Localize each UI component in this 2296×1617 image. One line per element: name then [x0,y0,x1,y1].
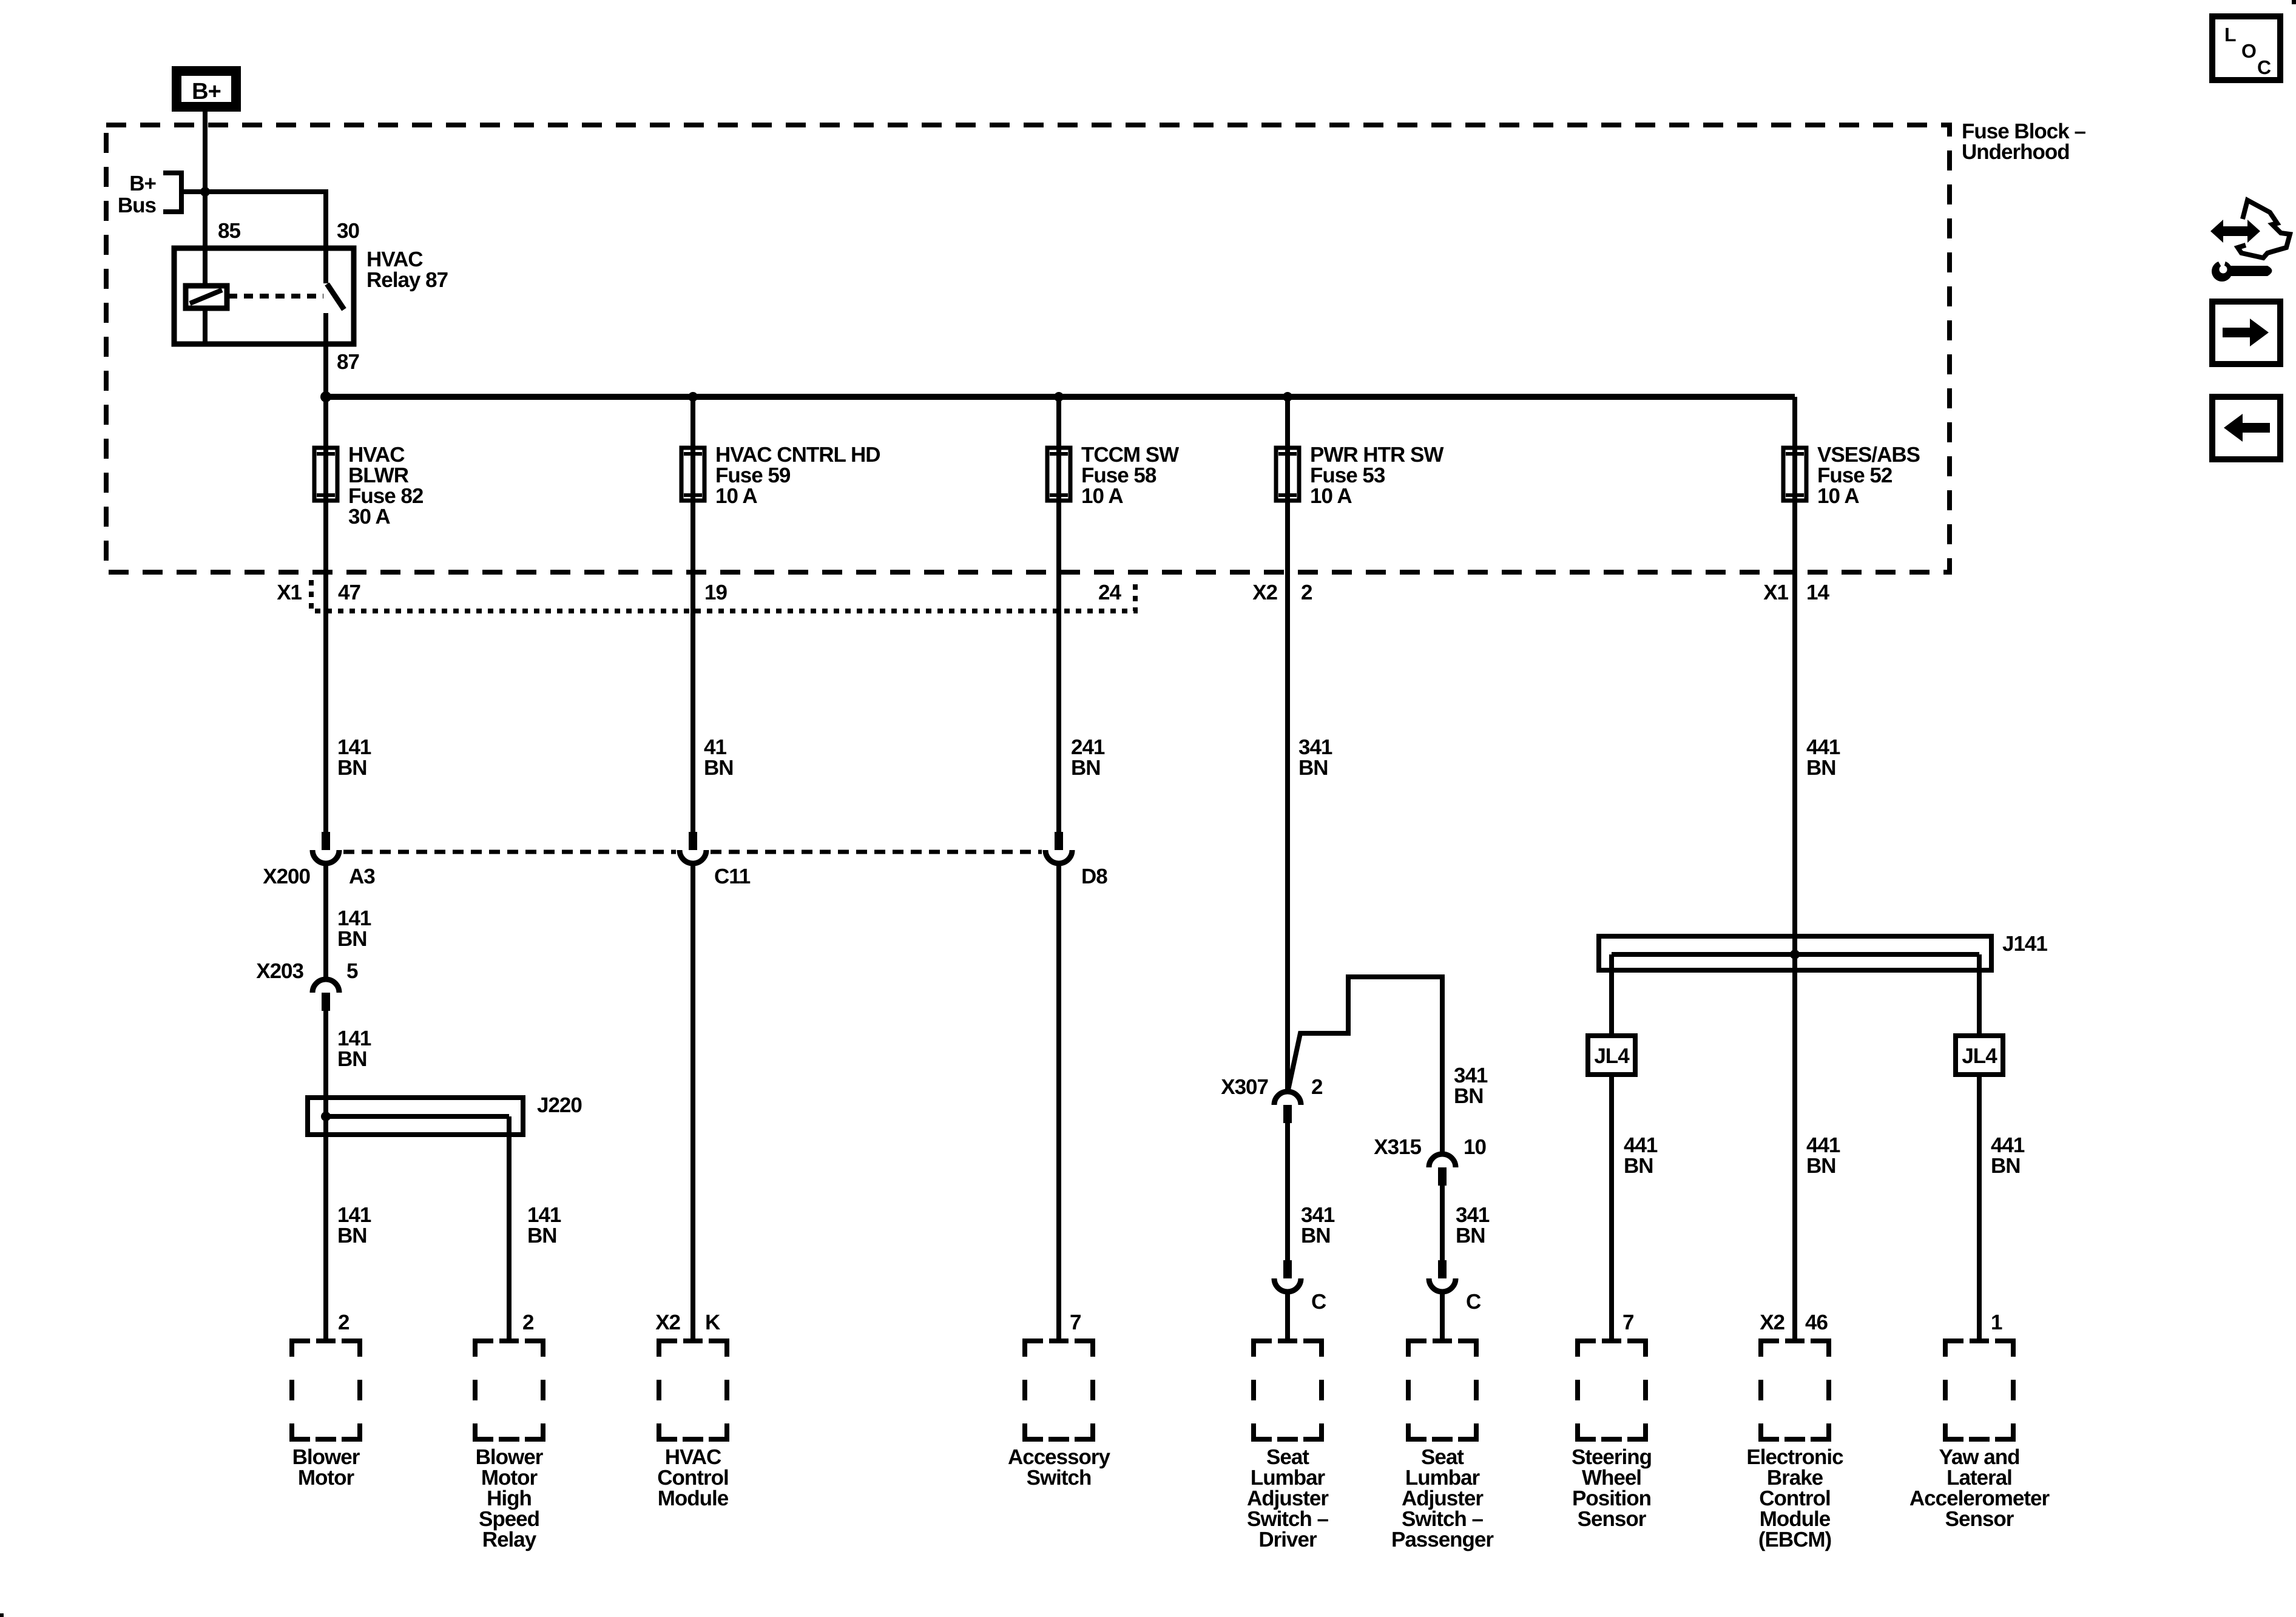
connector X200 dashed link [343,850,676,854]
svg-text:C: C [1311,1290,1326,1314]
wire J141 to JL4 right [1977,973,1982,1036]
supply bus line [323,394,1795,400]
svg-text:(EBCM): (EBCM) [1758,1528,1831,1551]
svg-text:Passenger: Passenger [1391,1528,1494,1551]
junction dot bus fuse 59 [688,392,698,402]
svg-text:10 A: 10 A [1817,484,1859,508]
component box seat lumbar adjuster switch driver [1254,1341,1272,1357]
connector X200 cavity A3 [322,832,330,850]
wire JL4 right to yaw sensor [1977,1077,1982,1340]
splice J220 internal bus [321,1112,331,1121]
svg-text:J220: J220 [537,1093,582,1117]
relay switch blade [327,284,344,309]
svg-text:X1: X1 [277,581,302,604]
splice pack J141 box [1599,936,1991,970]
svg-text:10 A: 10 A [715,484,757,508]
relay coil [186,286,227,308]
svg-text:X2: X2 [1760,1311,1784,1334]
forward arrow box [2212,302,2280,364]
svg-text:BN: BN [337,927,367,951]
svg-text:BN: BN [704,756,734,780]
wire X315 to connector C passenger [1440,1186,1445,1262]
diagnostic icon connector outline [2238,200,2290,258]
fuse F82 HVAC BLWR 30A [314,448,337,501]
page corner mark top-right [2292,0,2296,4]
svg-text:2: 2 [1301,581,1312,604]
svg-text:C11: C11 [714,865,751,888]
node B+ Bus bracket [163,173,181,212]
svg-text:BN: BN [1298,756,1328,780]
svg-text:30 A: 30 A [348,505,390,528]
svg-text:X203: X203 [256,959,303,983]
component box electronic brake control module EBCM [1761,1341,1779,1357]
svg-text:D8: D8 [1081,865,1107,888]
svg-text:Bus: Bus [118,194,157,217]
fuse F59 HVAC CNTRL HD 10A [681,448,704,501]
component box seat lumbar adjuster switch passenger [1408,1341,1427,1357]
svg-text:X315: X315 [1374,1135,1421,1159]
svg-text:7: 7 [1070,1311,1081,1334]
svg-text:85: 85 [218,219,240,243]
svg-text:B+: B+ [129,172,156,195]
splice pack J220 box [308,1098,523,1135]
component box blower motor [292,1341,310,1357]
fuse F58 TCCM SW 10A [1047,448,1070,501]
connector X203 cavity 5 [322,993,330,1011]
svg-text:87: 87 [337,350,359,374]
connector X307 cavity 2 [1283,1105,1292,1123]
wire fuse 82 to connector X200 [323,397,328,833]
svg-text:BN: BN [337,1224,367,1247]
svg-text:2: 2 [1311,1075,1323,1099]
svg-text:10 A: 10 A [1081,484,1123,508]
component box HVAC control module [659,1341,677,1357]
page corner mark bottom-left [0,1613,4,1617]
wire through J220 [323,1098,328,1340]
svg-text:B+: B+ [192,79,221,104]
svg-text:7: 7 [1622,1311,1633,1334]
wire JL4 left to steering sensor [1609,1077,1614,1340]
wire J141 to JL4 left [1609,973,1614,1036]
svg-text:BN: BN [1624,1154,1653,1178]
svg-text:10: 10 [1464,1135,1486,1159]
wire relay pin 85 to coil [203,192,208,287]
svg-text:19: 19 [704,581,727,604]
svg-text:2: 2 [522,1311,534,1334]
wire junction to relay pin 30 [203,189,326,194]
svg-text:Driver: Driver [1258,1528,1317,1551]
junction dot B+ bus [200,187,210,197]
wire through J141 [1792,936,1797,1340]
component box yaw and lateral accelerometer sensor [1945,1341,1963,1357]
junction dot pin 87 bus [320,391,331,402]
svg-text:Module: Module [658,1487,729,1510]
connector C passenger [1438,1260,1447,1278]
fuse F53 PWR HTR SW 10A [1276,448,1299,501]
svg-text:BN: BN [1301,1224,1331,1247]
svg-text:J141: J141 [2002,932,2047,956]
svg-text:Underhood: Underhood [1962,140,2070,164]
component box blower motor high speed relay [475,1341,493,1357]
svg-text:X307: X307 [1221,1075,1268,1099]
diagnostic icon double arrow [2210,220,2260,243]
connector X315 cavity 10 [1438,1167,1447,1186]
fuse F52 VSES/ABS 10A [1783,448,1806,501]
svg-text:X2: X2 [655,1311,680,1334]
wire fuse 53 to connector X307 [1285,397,1290,1092]
svg-text:46: 46 [1805,1311,1828,1334]
svg-text:1: 1 [1991,1311,2002,1334]
diagnostic icon wrench [2227,266,2272,276]
splice J141 internal bus [1612,952,1979,957]
svg-text:C: C [1466,1290,1481,1314]
svg-text:BN: BN [1454,1084,1484,1108]
LOC reference box [2212,16,2280,80]
svg-text:5: 5 [346,959,358,983]
wire C passenger to box [1440,1291,1445,1340]
svg-text:JL4: JL4 [1594,1044,1630,1068]
component box accessory switch [1025,1341,1043,1357]
svg-text:Relay: Relay [482,1528,537,1551]
svg-text:JL4: JL4 [1962,1044,1997,1068]
wire fuse 58 to connector X200 [1056,397,1061,833]
svg-text:14: 14 [1806,581,1829,604]
svg-text:A3: A3 [349,865,375,888]
svg-text:C: C [2257,56,2271,78]
connector C driver [1283,1260,1292,1278]
svg-text:Switch: Switch [1027,1466,1092,1490]
svg-text:BN: BN [1806,756,1836,780]
svg-text:10 A: 10 A [1310,484,1352,508]
wire fuse 52 to splice J141 [1792,397,1797,936]
svg-text:BN: BN [527,1224,557,1247]
wire X307 to connector C driver [1285,1123,1290,1262]
svg-text:Sensor: Sensor [1578,1507,1647,1531]
svg-text:L: L [2224,24,2236,46]
option box JL4 left [1588,1036,1635,1075]
svg-text:BN: BN [337,1047,367,1071]
connector X1 dotted bracket [311,580,1135,611]
fuse block underhood dashed boundary [106,125,1950,572]
svg-text:47: 47 [338,581,360,604]
wire B+ to bus junction [203,112,208,194]
junction dot bus fuse 53 [1283,392,1292,402]
wire X200 A3 to X203 [323,862,328,979]
svg-text:BN: BN [1806,1154,1836,1178]
wire coil to relay frame [203,308,208,343]
power feed B+ terminal box [177,71,236,107]
component box steering wheel position sensor [1578,1341,1596,1357]
svg-text:Motor: Motor [298,1466,355,1490]
wire C driver to box [1285,1291,1290,1340]
svg-text:BN: BN [1071,756,1101,780]
svg-text:O: O [2241,40,2256,62]
relay HVAC Relay 87 box [174,248,354,344]
connector X200 cavity D8 [1055,832,1063,850]
relay actuation dashed link [228,294,323,299]
wire X307 to X315 stepped link [1288,977,1442,1153]
svg-text:X1: X1 [1763,581,1788,604]
svg-text:X2: X2 [1252,581,1277,604]
svg-text:K: K [705,1311,720,1334]
svg-text:Sensor: Sensor [1945,1507,2014,1531]
svg-text:BN: BN [1456,1224,1485,1247]
back arrow box [2212,397,2280,459]
wire fuse 59 to connector X200 [690,397,695,833]
wire X200 D8 to accessory switch [1056,862,1061,1340]
svg-text:2: 2 [338,1311,349,1334]
svg-text:BN: BN [337,756,367,780]
wire relay pin 87 output [323,313,328,399]
svg-text:30: 30 [337,219,359,243]
svg-text:BN: BN [1991,1154,2021,1178]
wire X200 C11 to HVAC control module [690,862,695,1340]
svg-text:Relay 87: Relay 87 [366,268,448,292]
junction dot bus fuse 58 [1054,392,1064,402]
connector X200 cavity C11 [689,832,697,850]
svg-text:X200: X200 [263,865,310,888]
option box JL4 right [1956,1036,2003,1075]
wire X203 to splice J220 [323,1011,328,1098]
svg-text:24: 24 [1098,581,1121,604]
